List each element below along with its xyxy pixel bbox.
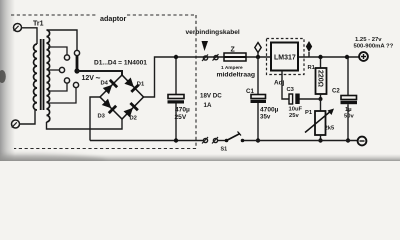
- svg-text:4700µ: 4700µ: [260, 107, 279, 114]
- svg-text:S1: S1: [221, 147, 228, 153]
- wire: 12V node to bridge top (AC1): [77, 71, 122, 75]
- bottom rail (negative): [90, 140, 203, 142]
- capacitor 470u top lead: [175, 57, 177, 95]
- diode D1 (upper-right arm): [124, 77, 139, 92]
- secondary tap 2 terminal: [59, 67, 64, 72]
- switch S1: [225, 132, 245, 143]
- wire: connector to switch: [218, 140, 227, 142]
- junction node bottom rail/470u: [174, 138, 178, 142]
- adaptor enclosure (dashed box): [11, 15, 196, 149]
- svg-text:12V: 12V: [82, 75, 95, 82]
- svg-text:35v: 35v: [260, 114, 271, 121]
- transformer Tr1 secondary winding: [47, 30, 50, 122]
- diode D2 (lower-right arm): [123, 103, 138, 118]
- label 4700u 35v: [260, 107, 279, 121]
- transformer core: [41, 39, 44, 110]
- svg-text:25V: 25V: [175, 114, 187, 121]
- bottom rail (after switch): [244, 140, 358, 142]
- scan shading bottom edge: [0, 154, 400, 170]
- label output voltage: [354, 37, 394, 50]
- svg-text:R1: R1: [308, 65, 316, 71]
- mains plug pin (top): [14, 24, 22, 32]
- svg-text:Z: Z: [231, 47, 236, 54]
- secondary tap 4 terminal: [73, 82, 78, 87]
- svg-text:220Ω: 220Ω: [317, 70, 324, 87]
- output terminal plus: [359, 52, 368, 61]
- selector link wire (thick): [76, 56, 79, 71]
- svg-text:C1: C1: [246, 88, 254, 95]
- bridge rectifier frame: [100, 75, 144, 119]
- junction node bottom rail/P1: [318, 138, 322, 142]
- diode D4 (upper-left arm): [102, 80, 117, 95]
- svg-text:470µ: 470µ: [175, 107, 190, 114]
- capacitor C1 lead: [257, 57, 259, 95]
- capacitor C1 bottom lead: [257, 103, 259, 141]
- paper background: [0, 0, 400, 161]
- transformer Tr1 primary winding: [33, 44, 37, 110]
- mains plug pin (bottom): [12, 120, 20, 128]
- wire: bridge DC minus to bottom rail: [90, 97, 100, 141]
- resistor R1 top lead: [320, 57, 322, 68]
- label "adaptor": [98, 12, 127, 23]
- label 18V DC 1A: [200, 93, 222, 110]
- svg-text:50v: 50v: [344, 114, 354, 120]
- scan gutter shading left edge: [0, 0, 15, 161]
- svg-text:1A: 1A: [204, 102, 212, 109]
- capacitor C1 plates: [251, 95, 267, 104]
- svg-text:C2: C2: [332, 89, 340, 95]
- secondary tap 1 wire: [48, 47, 67, 55]
- secondary tap 2 wire: [48, 69, 59, 71]
- junction node 12V: [74, 68, 79, 73]
- junction node rail/R1: [318, 55, 322, 59]
- capacitor C2 plates: [341, 96, 358, 105]
- connector pin pair (positive lead): [202, 54, 219, 61]
- resistor R1 body: [316, 68, 327, 94]
- svg-text:D2: D2: [130, 116, 137, 122]
- wire: bottom plug pin to primary bottom: [20, 110, 36, 124]
- svg-text:1µ: 1µ: [345, 107, 352, 113]
- wire: secondary bottom AC return to bridge bottom (AC2): [47, 119, 123, 129]
- svg-text:10uF: 10uF: [289, 107, 303, 113]
- voltage regulator U1 LM317 dashed package outline: [267, 39, 305, 75]
- voltage regulator U1 LM317 body: [271, 43, 298, 71]
- wire: bridge DC plus riser to positive rail: [144, 57, 360, 97]
- selector pin (top, 12V tap terminal): [74, 50, 79, 55]
- potentiometer P1 wiper arrow: [305, 109, 334, 133]
- potentiometer P1 body: [315, 111, 326, 135]
- capacitor 470u plates: [168, 95, 185, 104]
- svg-text:P1: P1: [305, 110, 313, 116]
- junction node rail/470u: [174, 55, 178, 59]
- junction node rail/C1: [256, 55, 260, 59]
- junction node rail/C2: [345, 55, 349, 59]
- connector pin pair (negative lead): [202, 137, 218, 144]
- wire: top plug pin to primary top: [22, 28, 38, 44]
- svg-text:Adj: Adj: [274, 80, 285, 87]
- capacitor C2 bottom lead: [347, 104, 349, 140]
- input connector symbol (open kite): [255, 43, 261, 58]
- svg-text:18V DC: 18V DC: [200, 93, 222, 100]
- svg-text:LM317: LM317: [274, 55, 296, 62]
- capacitor C2 top lead: [347, 57, 349, 96]
- svg-text:1.25 - 27v: 1.25 - 27v: [355, 37, 382, 43]
- svg-text:D4: D4: [101, 81, 109, 87]
- svg-text:2k5: 2k5: [325, 126, 335, 132]
- svg-text:D1...D4 = 1N4001: D1...D4 = 1N4001: [94, 60, 147, 67]
- secondary tap 3 terminal: [64, 78, 69, 83]
- label 470u 25V: [175, 107, 191, 121]
- junction node Adj/R1/P1: [300, 97, 323, 101]
- fuse Z body: [224, 53, 246, 61]
- output terminal minus: [358, 137, 367, 146]
- arrow to connector: [202, 41, 209, 51]
- secondary tap 1 terminal: [64, 55, 69, 60]
- potentiometer P1 top lead: [320, 99, 322, 111]
- label 10uF 25v: [289, 107, 303, 120]
- label 1u 50v: [344, 107, 354, 120]
- junction node bottom rail/C1: [256, 138, 260, 142]
- capacitor C3 plates: [289, 94, 300, 105]
- capacitor 470u bottom lead: [175, 104, 177, 141]
- svg-text:25v: 25v: [289, 113, 299, 119]
- svg-text:middeltraag: middeltraag: [217, 72, 256, 79]
- svg-text:C3: C3: [287, 87, 295, 93]
- resistor R1 bottom lead: [320, 94, 322, 99]
- secondary tap 3 wire: [48, 83, 67, 91]
- label 12V~: [82, 73, 101, 83]
- svg-text:Tr1: Tr1: [33, 21, 44, 28]
- svg-text:verbindingskabel: verbindingskabel: [186, 29, 240, 36]
- svg-text:adaptor: adaptor: [100, 14, 127, 23]
- output connector symbol (filled kite): [306, 41, 312, 57]
- Adj pin wire: [282, 71, 289, 100]
- potentiometer P1 bottom lead: [320, 135, 322, 141]
- secondary tap 4 wire: [48, 88, 76, 103]
- svg-text:D3: D3: [98, 114, 106, 120]
- junction node bottom rail/C2: [346, 138, 350, 142]
- diode D3 (lower-left arm): [101, 98, 116, 113]
- svg-text:D1: D1: [137, 82, 145, 88]
- svg-text:500-900mA ??: 500-900mA ??: [354, 44, 394, 50]
- svg-text:1 Ampere: 1 Ampere: [221, 65, 243, 71]
- wire: secondary top to selector pin: [47, 30, 78, 51]
